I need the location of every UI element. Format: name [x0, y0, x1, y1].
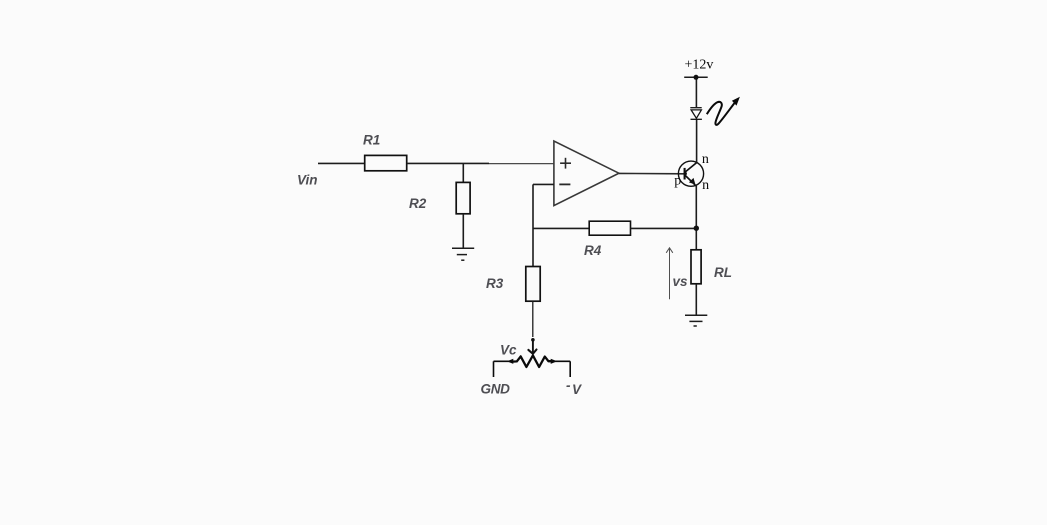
potentiometer left lead and arrow: [494, 360, 514, 362]
svg-text:n: n: [702, 178, 709, 193]
wire RL to ground: [695, 284, 697, 315]
wire R3 to potentiometer wiper: [532, 301, 534, 337]
wire emitter down to node: [695, 186, 697, 250]
op-amp U1: [554, 141, 619, 206]
node junction feedback/RL: [694, 226, 699, 231]
svg-text:R2: R2: [409, 196, 427, 211]
ground (R2): [452, 248, 474, 260]
LED light emission squiggle arrow: [707, 102, 735, 125]
resistor R1: [365, 155, 407, 170]
svg-text:p: p: [674, 174, 681, 189]
wire diode to +12v bar: [695, 77, 697, 108]
wire R2 to ground: [462, 214, 464, 248]
wire potentiometer left terminal down: [493, 361, 495, 377]
svg-text:Vin: Vin: [297, 173, 318, 188]
potentiometer wiper arrow: [528, 350, 536, 354]
svg-text:R3: R3: [486, 276, 504, 291]
svg-text:R4: R4: [584, 243, 602, 258]
svg-text:V: V: [572, 382, 582, 397]
wire R1 to op-amp noninverting input: [407, 162, 489, 164]
wire op-amp output to transistor base: [619, 172, 685, 174]
transistor emitter stroke with arrow: [685, 175, 696, 186]
wire R4 right to node: [631, 227, 697, 229]
op-amp minus input mark: [559, 183, 570, 185]
transistor Q1 circle: [678, 161, 703, 186]
wire potentiometer right terminal down: [569, 361, 571, 377]
potentiometer VR1 zigzag: [513, 355, 552, 367]
potentiometer right lead and arrow: [549, 360, 571, 362]
wire Vin input: [318, 162, 365, 164]
op-amp plus input mark: [560, 158, 571, 169]
resistor RL: [691, 250, 701, 284]
svg-text:RL: RL: [714, 265, 732, 280]
svg-text:vs: vs: [673, 274, 689, 289]
wire feedback vertical: [532, 184, 534, 266]
svg-text:Vc: Vc: [500, 343, 517, 358]
wire op-amp inverting input: [533, 183, 554, 185]
resistor R2: [456, 182, 470, 213]
diode D1 (LED): [690, 108, 702, 120]
wire to R4 left: [533, 227, 589, 229]
wiper stem: [532, 340, 534, 353]
node junction R1/R2: [462, 163, 464, 182]
resistor R3: [526, 267, 540, 302]
svg-text:-: -: [566, 378, 571, 393]
+12v supply bar: [684, 76, 708, 78]
svg-text:+12v: +12v: [685, 58, 714, 73]
transistor base bar: [684, 168, 686, 180]
svg-text:n: n: [702, 152, 709, 167]
transistor collector stroke: [685, 162, 697, 172]
wire collector up to diode: [696, 119, 698, 162]
vs arrow: [666, 248, 673, 299]
ground (RL): [685, 315, 707, 326]
svg-text:R1: R1: [363, 133, 380, 148]
+12v node dot: [694, 75, 699, 80]
resistor R4: [589, 221, 630, 235]
transistor base junction blob: [684, 172, 687, 175]
wiper stem blob: [531, 338, 535, 342]
svg-text:GND: GND: [481, 382, 511, 397]
